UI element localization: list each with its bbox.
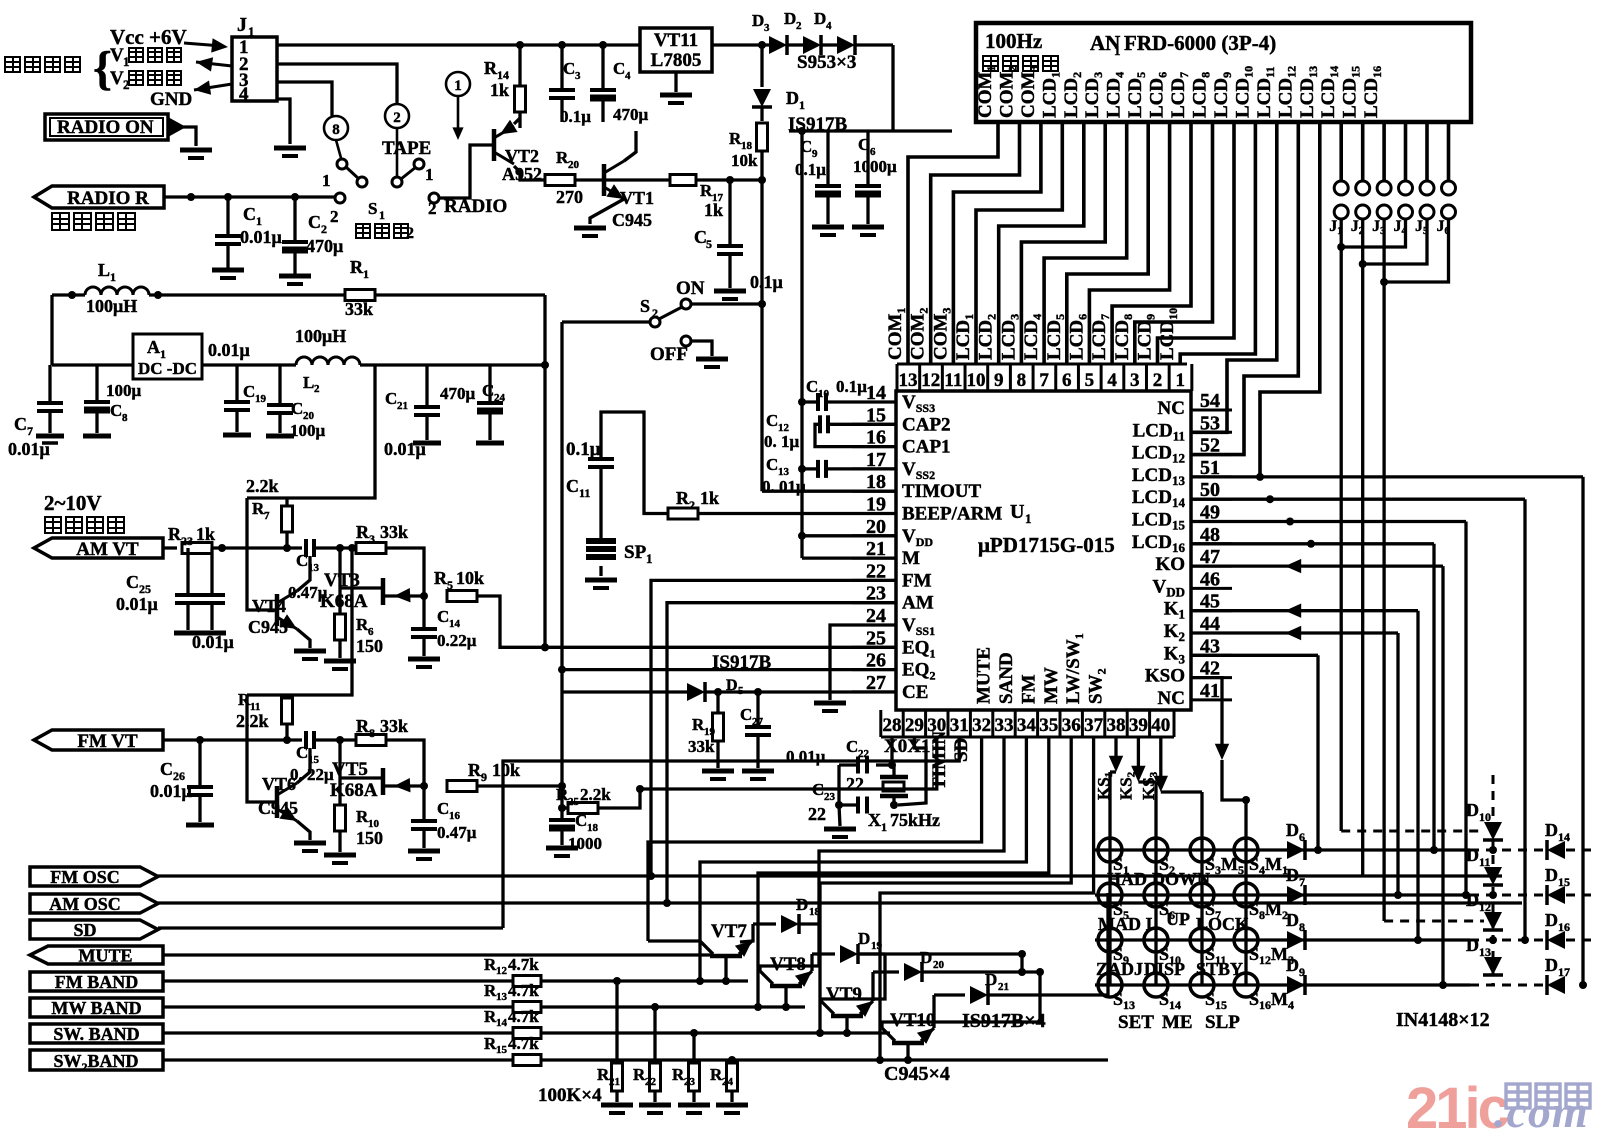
svg-text:0.1μ: 0.1μ [750,272,783,292]
svg-text:D: D [796,895,808,914]
svg-text:TIMOUT: TIMOUT [902,481,982,502]
svg-text:1: 1 [646,551,653,566]
svg-text:22: 22 [858,748,870,760]
svg-text:μPD1715G-015: μPD1715G-015 [978,533,1115,557]
svg-text:1: 1 [1175,370,1185,391]
svg-text:0.1μ: 0.1μ [795,160,826,179]
svg-text:VT3: VT3 [324,570,360,591]
svg-text:ZADJ: ZADJ [1096,959,1143,979]
svg-text:10k: 10k [731,151,758,170]
svg-text:14: 14 [449,618,461,630]
svg-text:10k: 10k [456,568,484,588]
svg-text:11: 11 [1479,855,1490,869]
svg-text:9: 9 [994,370,1004,391]
svg-text:C: C [243,204,256,224]
svg-text:ON: ON [676,278,705,299]
svg-text:VT7: VT7 [711,921,747,942]
svg-text:1000μ: 1000μ [853,157,897,176]
svg-text:12: 12 [921,370,940,391]
svg-text:5: 5 [738,685,744,697]
svg-text:D: D [1545,910,1558,930]
svg-text:L: L [98,260,110,280]
svg-text:HAD: HAD [1107,869,1147,889]
svg-text:12: 12 [496,965,508,977]
svg-text:28: 28 [883,715,902,736]
svg-text:STBY: STBY [1196,959,1243,979]
svg-text:L: L [303,373,314,392]
svg-text:DC -DC: DC -DC [138,359,197,378]
svg-text:S: S [368,199,377,218]
svg-text:33k: 33k [345,299,373,319]
svg-text:C945×4: C945×4 [884,1063,950,1085]
svg-text:MUTE: MUTE [79,945,133,965]
svg-text:10: 10 [967,370,986,391]
svg-text:39: 39 [1129,715,1148,736]
svg-text:U: U [1010,501,1024,523]
svg-text:C: C [858,135,870,154]
svg-text:LCD3: LCD3 [998,314,1021,360]
svg-text:SLP: SLP [1205,1012,1240,1033]
svg-text:470μ: 470μ [440,384,476,403]
svg-text:X: X [868,810,881,830]
svg-text:R: R [356,716,370,736]
svg-text:2.2k: 2.2k [236,711,269,731]
svg-text:5: 5 [706,237,712,251]
svg-text:C: C [437,799,449,818]
svg-text:33: 33 [995,715,1014,736]
svg-text:M: M [902,548,920,569]
svg-text:J: J [237,14,247,36]
svg-text:1: 1 [248,24,255,39]
svg-text:SD: SD [73,920,96,940]
svg-text:LOCK: LOCK [1196,914,1249,934]
svg-text:AM: AM [902,593,934,614]
svg-text:19: 19 [871,940,883,952]
svg-text:10: 10 [1479,810,1491,824]
svg-text:IS917B: IS917B [712,652,771,673]
svg-text:D: D [1466,935,1479,955]
svg-text:DOWN: DOWN [1152,869,1210,889]
svg-text:L7805: L7805 [651,50,702,71]
svg-text:CAP2: CAP2 [902,414,951,435]
svg-text:C: C [308,212,321,232]
svg-text:D: D [1466,890,1479,910]
svg-text:V: V [110,68,124,89]
svg-text:75kHz: 75kHz [890,810,940,830]
svg-text:LCD7: LCD7 [1168,72,1191,118]
svg-text:54: 54 [1200,390,1220,412]
svg-text:4: 4 [1107,370,1117,391]
svg-text:R: R [434,568,448,588]
svg-text:C: C [566,476,579,496]
svg-text:LCD5: LCD5 [1044,314,1067,360]
svg-text:C: C [291,399,303,418]
svg-text:0.1μ: 0.1μ [566,439,601,460]
svg-text:LCD5: LCD5 [1125,72,1148,118]
svg-text:LCD3: LCD3 [1082,72,1105,118]
svg-text:C: C [806,377,818,396]
svg-text:4: 4 [239,84,249,105]
svg-text:1: 1 [256,214,262,228]
svg-text:D: D [985,970,997,989]
svg-text:13: 13 [899,370,918,391]
svg-text:14: 14 [496,1017,508,1029]
svg-text:SP: SP [624,542,647,563]
svg-text:.com: .com [1494,1086,1589,1130]
svg-text:FM: FM [1018,674,1039,704]
svg-text:100μ: 100μ [290,421,326,440]
svg-text:1: 1 [454,78,462,94]
svg-text:CAP1: CAP1 [902,437,951,458]
svg-text:VT11: VT11 [654,30,698,51]
svg-text:2: 2 [330,207,339,226]
svg-text:33k: 33k [688,737,715,756]
svg-text:4.7k: 4.7k [508,955,539,974]
svg-text:C: C [766,455,778,474]
svg-text:V: V [110,45,124,66]
svg-text:KSO: KSO [1145,666,1185,687]
svg-text:14: 14 [1558,830,1570,844]
svg-text:8: 8 [369,726,375,740]
svg-text:LCD6: LCD6 [1147,72,1170,118]
svg-text:0.01μ: 0.01μ [116,594,158,614]
svg-text:100μH: 100μH [295,326,346,346]
svg-text:C945: C945 [612,210,652,230]
svg-text:SD: SD [951,738,972,762]
svg-text:R: R [168,524,182,544]
svg-text:9: 9 [812,148,818,160]
svg-text:11: 11 [579,486,590,500]
svg-text:0.01μ: 0.01μ [384,439,426,459]
svg-text:22: 22 [645,1076,657,1088]
svg-text:15: 15 [1558,875,1570,889]
svg-text:NC: NC [1158,688,1185,709]
svg-text:C: C [296,743,308,762]
svg-text:R: R [484,58,498,78]
svg-text:C: C [613,59,625,78]
svg-text:D: D [858,929,870,948]
svg-text:R: R [356,522,370,542]
svg-text:100K×4: 100K×4 [538,1085,602,1106]
svg-text:COM1: COM1 [885,308,908,360]
svg-text:VT9: VT9 [826,984,862,1005]
svg-text:1000: 1000 [568,834,602,853]
svg-text:KO: KO [1155,554,1185,575]
svg-text:23: 23 [824,791,836,803]
svg-text:0.01μ: 0.01μ [192,632,234,652]
svg-text:2.2k: 2.2k [580,785,611,804]
svg-text:LCD8: LCD8 [1112,314,1135,360]
svg-text:1k: 1k [490,80,509,100]
svg-text:SET: SET [1118,1012,1154,1033]
svg-text:D: D [786,88,799,108]
svg-text:35: 35 [1039,715,1058,736]
svg-text:0.47μ: 0.47μ [437,823,477,842]
svg-text:COM3: COM3 [930,308,953,360]
svg-text:3: 3 [369,532,375,546]
svg-text:41: 41 [1200,680,1220,702]
svg-text:COM1: COM1 [975,66,998,118]
svg-text:46: 46 [1200,568,1220,590]
svg-text:2: 2 [314,383,320,395]
svg-text:COM3: COM3 [1018,66,1041,118]
svg-text:7: 7 [27,424,33,438]
svg-text:1: 1 [110,270,116,284]
svg-text:SW. BAND: SW. BAND [53,1024,139,1044]
svg-text:6: 6 [1062,370,1072,391]
svg-text:C945: C945 [258,798,298,818]
svg-text:VT10: VT10 [890,1010,935,1031]
svg-text:LW/SW1: LW/SW1 [1063,633,1086,704]
svg-text:10k: 10k [492,760,520,780]
svg-text:C: C [740,705,752,724]
svg-text:LCD2: LCD2 [1061,72,1084,118]
svg-text:20: 20 [568,159,580,171]
svg-text:4.7k: 4.7k [508,1007,539,1026]
svg-text:R: R [676,488,690,508]
svg-text:470μ: 470μ [306,236,343,256]
svg-text:BEEP/ARM: BEEP/ARM [902,504,1002,525]
svg-text:AM VT: AM VT [76,539,139,560]
svg-text:C: C [110,401,122,420]
svg-text:C: C [766,411,778,430]
svg-text:K68A: K68A [330,780,378,801]
svg-text:MAD I: MAD I [1098,914,1153,934]
svg-text:C: C [14,414,27,434]
svg-text:9: 9 [1299,965,1305,979]
svg-text:COM2: COM2 [908,308,931,360]
svg-text:33k: 33k [380,716,408,736]
svg-text:20: 20 [933,959,945,971]
svg-text:D: D [1466,845,1479,865]
svg-text:C: C [243,382,255,401]
svg-text:LCD6: LCD6 [1066,314,1089,360]
svg-text:C: C [575,811,587,830]
svg-text:36: 36 [1062,715,1081,736]
svg-text:34: 34 [1017,715,1037,736]
svg-text:40: 40 [1151,715,1170,736]
svg-text:LCD8: LCD8 [1190,72,1213,118]
svg-text:25: 25 [568,796,580,808]
svg-text:16: 16 [449,810,461,822]
svg-text:MUTE: MUTE [974,647,995,704]
svg-text:27: 27 [752,716,764,728]
svg-text:VT4: VT4 [252,596,286,616]
svg-text:8: 8 [332,122,340,138]
svg-text:D: D [1286,910,1299,930]
svg-text:2: 2 [796,20,802,32]
svg-text:D: D [784,9,796,28]
svg-text:100μ: 100μ [106,381,142,400]
svg-text:S16M4: S16M4 [1249,989,1294,1012]
svg-text:IS917B×4: IS917B×4 [962,1010,1046,1032]
svg-text:LCD1: LCD1 [1039,72,1062,118]
svg-text:22: 22 [808,804,826,824]
svg-text:D: D [1545,955,1558,975]
svg-text:FM VT: FM VT [77,731,138,752]
svg-text:1k: 1k [704,200,723,220]
svg-text:150: 150 [356,828,383,848]
svg-text:NC: NC [1158,398,1185,419]
svg-text:TAPE: TAPE [382,138,431,159]
svg-text:15: 15 [496,1044,508,1056]
svg-text:LCD7: LCD7 [1089,314,1112,360]
svg-text:FM BAND: FM BAND [55,972,139,992]
svg-text:C: C [126,572,139,592]
svg-text:A: A [147,337,160,357]
svg-text:0. 1μ: 0. 1μ [764,432,800,451]
svg-text:5: 5 [447,578,453,592]
svg-text:C: C [482,381,494,400]
svg-text:COM2: COM2 [997,66,1020,118]
svg-text:3: 3 [575,70,581,82]
svg-text:0. 01μ: 0. 01μ [762,477,806,496]
svg-text:1: 1 [363,267,369,281]
svg-text:FM OSC: FM OSC [50,867,120,887]
svg-text:21: 21 [609,1076,620,1088]
svg-text:37: 37 [1084,715,1104,736]
svg-text:C: C [846,737,858,756]
svg-text:0.1μ: 0.1μ [560,107,591,126]
svg-text:ME: ME [1162,1012,1193,1033]
svg-text:UP: UP [1166,909,1190,929]
svg-text:13: 13 [496,991,508,1003]
svg-text:1k: 1k [700,488,719,508]
svg-text:C: C [385,389,397,408]
svg-text:GND: GND [150,89,192,110]
svg-text:K68A: K68A [320,591,368,612]
svg-text:D: D [814,9,826,28]
svg-text:29: 29 [905,715,924,736]
svg-text:LCD9: LCD9 [1211,72,1234,118]
svg-text:C945: C945 [248,617,288,637]
svg-text:LCD4: LCD4 [1021,314,1044,360]
svg-text:FM: FM [902,570,932,591]
svg-text:C: C [437,607,449,626]
svg-text:1: 1 [379,208,385,222]
svg-text:0.1μ: 0.1μ [836,377,867,396]
svg-text:CE: CE [902,682,928,703]
svg-text:24: 24 [494,392,506,404]
svg-text:31: 31 [950,715,969,736]
svg-text:21: 21 [998,981,1009,993]
svg-text:4: 4 [826,20,832,32]
svg-text:2.2k: 2.2k [246,476,279,496]
svg-text:C: C [563,59,575,78]
svg-text:R: R [468,760,482,780]
svg-text:6: 6 [1299,830,1305,844]
svg-text:1: 1 [322,171,331,190]
svg-text:S953×3: S953×3 [797,52,856,73]
svg-text:7: 7 [264,510,270,522]
svg-text:VT8: VT8 [770,954,806,975]
svg-text:23: 23 [181,534,193,548]
svg-text:33k: 33k [380,522,408,542]
svg-text:1: 1 [425,165,434,184]
svg-text:OFF: OFF [650,344,688,365]
svg-text:R: R [350,257,364,277]
svg-text:SAND: SAND [996,652,1017,704]
svg-text:5: 5 [1085,370,1095,391]
svg-text:4: 4 [625,70,631,82]
svg-text:VT6: VT6 [262,774,296,794]
svg-text:470μ: 470μ [613,105,649,124]
svg-text:LCD2: LCD2 [976,314,999,360]
svg-text:22: 22 [846,774,864,794]
svg-text:0.01μ: 0.01μ [208,340,250,360]
svg-text:D: D [1286,955,1299,975]
svg-text:2: 2 [393,110,401,126]
svg-text:1: 1 [1114,43,1121,58]
svg-text:32: 32 [972,715,991,736]
svg-text:VT5: VT5 [332,759,368,780]
svg-text:D: D [752,11,764,30]
svg-text:2: 2 [428,199,437,218]
svg-text:DISP: DISP [1144,959,1185,979]
svg-text:1k: 1k [196,524,215,544]
svg-text:4.7k: 4.7k [508,981,539,1000]
svg-text:17: 17 [1558,965,1570,979]
svg-text:100Hz: 100Hz [985,29,1042,53]
svg-text:VT1: VT1 [620,188,654,208]
svg-text:2~10V: 2~10V [44,491,102,515]
svg-text:0.01μ: 0.01μ [150,781,192,801]
svg-text:LCD1: LCD1 [953,314,976,360]
svg-text:LCD4: LCD4 [1104,72,1127,118]
svg-text:16: 16 [1558,920,1570,934]
svg-text:AM OSC: AM OSC [49,894,121,914]
svg-text:23: 23 [684,1076,696,1088]
svg-text:0.22μ: 0.22μ [437,631,477,650]
svg-text:D: D [726,677,738,694]
svg-text:1: 1 [799,98,805,112]
svg-text:1: 1 [1025,511,1032,526]
svg-text:0.01μ: 0.01μ [8,439,50,459]
svg-text:3: 3 [764,22,770,34]
svg-text:18: 18 [809,906,821,918]
svg-text:100μH: 100μH [86,296,137,316]
svg-text:D: D [920,948,932,967]
svg-text:7: 7 [1039,370,1049,391]
svg-text:RADIO R: RADIO R [67,188,149,209]
svg-text:150: 150 [356,636,383,656]
svg-text:1: 1 [881,820,887,834]
svg-text:S: S [640,296,650,316]
svg-text:D: D [1545,820,1558,840]
svg-text:2: 2 [321,222,327,236]
svg-text:270: 270 [556,187,583,207]
svg-text:IN4148×12: IN4148×12 [1396,1009,1490,1031]
svg-text:2: 2 [1153,370,1163,391]
svg-text:13: 13 [1479,945,1491,959]
svg-text:D: D [1466,800,1479,820]
svg-text:C: C [296,551,308,570]
svg-text:MW BAND: MW BAND [51,998,141,1018]
svg-text:18: 18 [587,822,599,834]
svg-text:38: 38 [1107,715,1126,736]
svg-text:10: 10 [818,388,830,400]
svg-text:RADIO ON: RADIO ON [57,117,154,138]
svg-text:VT2: VT2 [505,146,539,166]
svg-text:0.01μ: 0.01μ [240,227,282,247]
svg-text:24: 24 [722,1076,734,1088]
svg-text:FRD-6000 (3P-4): FRD-6000 (3P-4) [1124,31,1276,55]
svg-text:8: 8 [1299,920,1305,934]
svg-text:C: C [160,759,173,779]
svg-text:8: 8 [1017,370,1027,391]
svg-text:MW: MW [1041,667,1062,704]
svg-text:D: D [1545,865,1558,885]
